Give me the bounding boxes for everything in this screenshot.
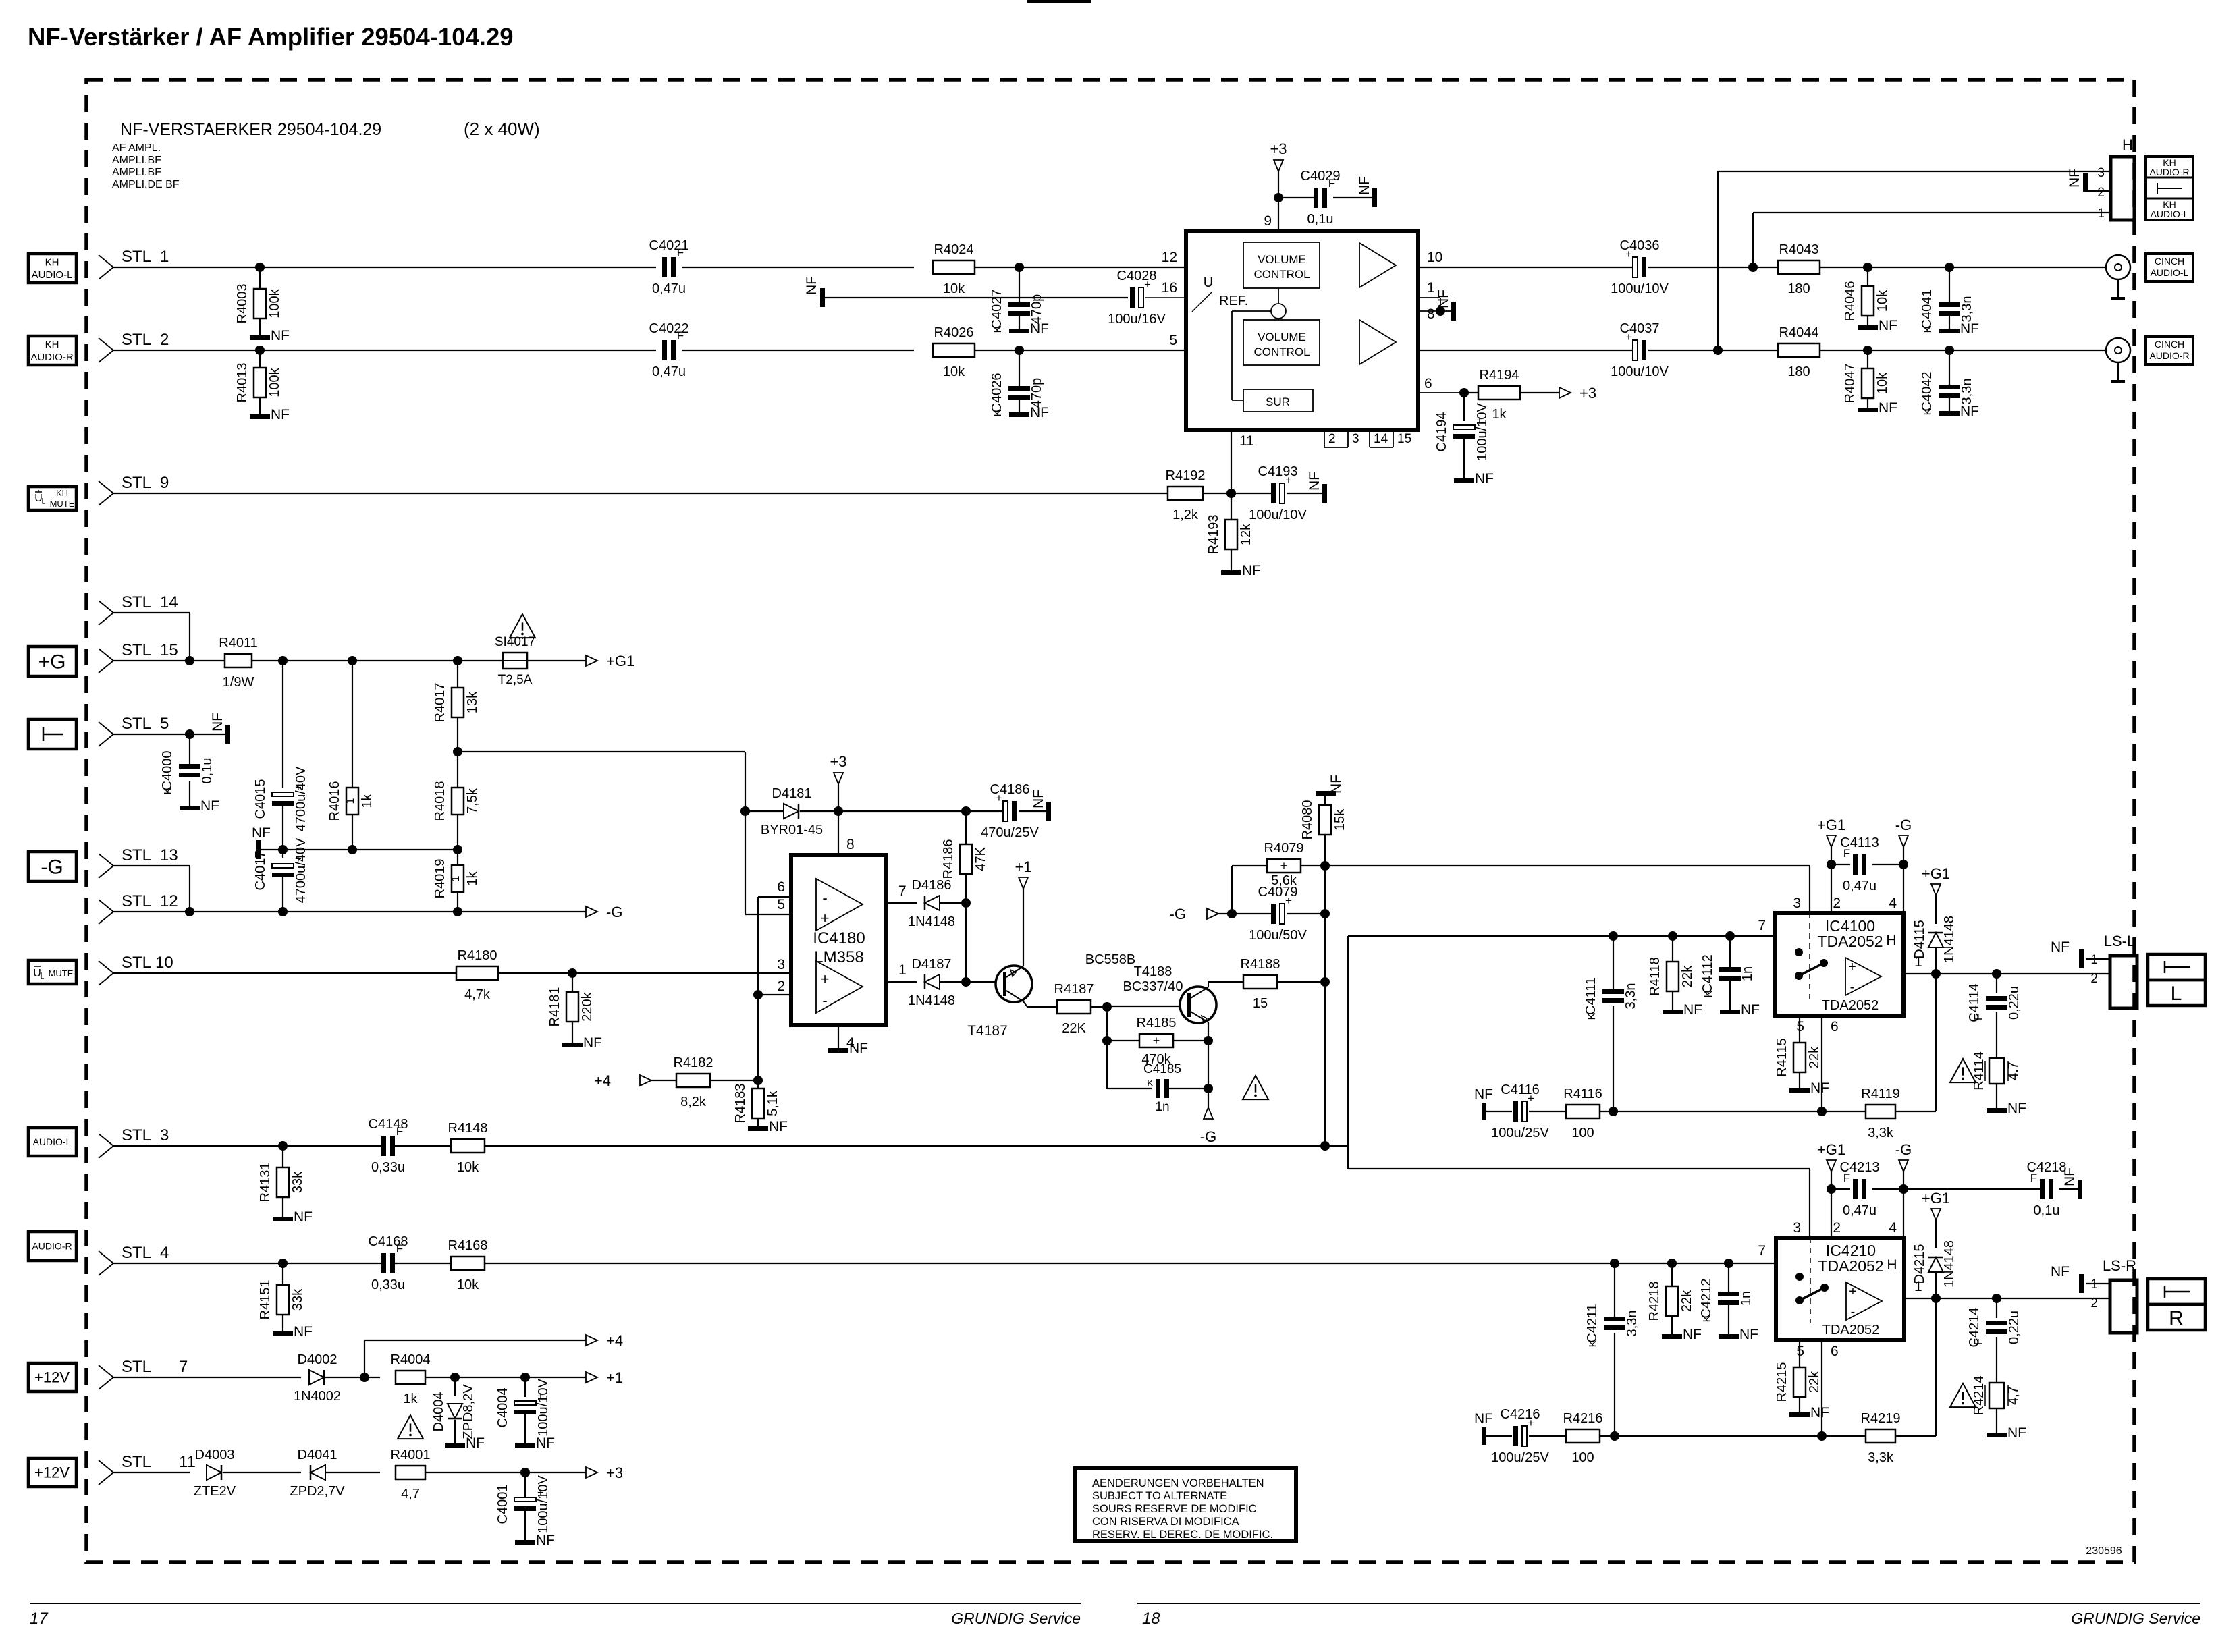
svg-text:22k: 22k: [1807, 1371, 1822, 1393]
svg-text:12: 12: [1162, 250, 1177, 265]
svg-text:R4187: R4187: [1054, 982, 1094, 997]
svg-text:CINCH: CINCH: [2155, 256, 2184, 267]
svg-text:R4181: R4181: [547, 987, 562, 1027]
svg-text:3,3k: 3,3k: [1868, 1126, 1894, 1140]
svg-text:AF AMPL.: AF AMPL.: [112, 142, 161, 154]
svg-text:-G: -G: [40, 856, 63, 879]
svg-text:22k: 22k: [1807, 1046, 1822, 1068]
svg-text:C4004: C4004: [495, 1388, 510, 1428]
svg-text:F: F: [1328, 177, 1335, 190]
svg-text:1n: 1n: [1155, 1100, 1169, 1114]
svg-text:D4041: D4041: [298, 1448, 337, 1462]
svg-text:5,1k: 5,1k: [765, 1090, 780, 1116]
svg-text:1k: 1k: [1492, 407, 1507, 422]
svg-text:K: K: [163, 787, 174, 794]
svg-text:2: 2: [2090, 972, 2098, 986]
svg-text:+1: +1: [1015, 858, 1031, 875]
svg-text:SOURS RESERVE DE MODIFIC: SOURS RESERVE DE MODIFIC: [1092, 1503, 1257, 1515]
svg-text:NF: NF: [1683, 1327, 1702, 1342]
svg-text:100: 100: [1571, 1450, 1594, 1465]
svg-text:0,47u: 0,47u: [652, 364, 686, 379]
svg-text:9: 9: [1264, 213, 1272, 229]
svg-text:-: -: [1850, 980, 1855, 995]
svg-text:NF: NF: [536, 1435, 555, 1451]
svg-text:4,7: 4,7: [2006, 1386, 2021, 1405]
svg-text:13k: 13k: [465, 691, 480, 713]
svg-text:AUDIO-L: AUDIO-L: [2151, 209, 2189, 219]
svg-text:GRUNDIG Service: GRUNDIG Service: [951, 1609, 1081, 1627]
svg-text:0,1u: 0,1u: [1307, 212, 1334, 227]
svg-text:MUTE: MUTE: [50, 499, 75, 509]
svg-text:NF: NF: [1810, 1405, 1829, 1421]
svg-text:R4168: R4168: [448, 1238, 488, 1253]
svg-text:VOLUME: VOLUME: [1258, 331, 1306, 343]
svg-text:C4212: C4212: [1699, 1279, 1714, 1319]
svg-text:1: 1: [2090, 1277, 2098, 1292]
svg-text:4,7k: 4,7k: [464, 987, 491, 1002]
svg-text:AUDIO-R: AUDIO-R: [30, 352, 74, 363]
svg-text:-G: -G: [1200, 1128, 1216, 1145]
svg-text:+: +: [821, 910, 830, 927]
svg-text:STL: STL: [122, 954, 151, 972]
svg-text:33k: 33k: [290, 1288, 305, 1311]
svg-text:D4181: D4181: [772, 786, 812, 801]
svg-text:3,3k: 3,3k: [1868, 1450, 1894, 1465]
svg-text:17: 17: [30, 1609, 49, 1628]
svg-text:180: 180: [1787, 281, 1810, 296]
svg-text:R4186: R4186: [941, 839, 956, 879]
svg-text:NF: NF: [1879, 318, 1897, 333]
svg-text:15: 15: [1397, 432, 1411, 446]
svg-text:K: K: [1588, 1340, 1599, 1347]
svg-text:NF: NF: [1960, 404, 1979, 419]
svg-text:+: +: [1280, 859, 1288, 873]
svg-text:1k: 1k: [403, 1392, 418, 1406]
svg-text:3,3n: 3,3n: [1625, 1311, 1640, 1337]
svg-text:CONTROL: CONTROL: [1253, 346, 1309, 358]
svg-text:1,2k: 1,2k: [1172, 507, 1199, 522]
svg-text:NF: NF: [2007, 1425, 2026, 1441]
svg-text:6: 6: [1831, 1019, 1839, 1035]
svg-text:STL: STL: [122, 331, 151, 349]
svg-text:0,22u: 0,22u: [2007, 986, 2022, 1020]
svg-text:15: 15: [1253, 996, 1268, 1011]
svg-text:NF: NF: [271, 407, 290, 422]
svg-text:10k: 10k: [943, 281, 965, 296]
svg-text:100u/10V: 100u/10V: [1475, 403, 1490, 461]
svg-text:1k: 1k: [360, 793, 375, 808]
svg-text:R4119: R4119: [1861, 1086, 1899, 1101]
svg-text:0,47u: 0,47u: [1843, 1203, 1877, 1218]
svg-text:NF: NF: [804, 276, 819, 295]
svg-text:1N4002: 1N4002: [294, 1389, 341, 1404]
svg-text:D4004: D4004: [431, 1392, 446, 1432]
svg-text:3: 3: [1793, 1220, 1801, 1236]
svg-text:+G1: +G1: [1922, 865, 1950, 882]
svg-text:-: -: [1851, 1304, 1856, 1319]
svg-text:R4001: R4001: [391, 1448, 431, 1462]
svg-text:10k: 10k: [1875, 290, 1890, 312]
svg-text:C4112: C4112: [1700, 954, 1715, 993]
svg-text:T4188: T4188: [1134, 964, 1172, 979]
svg-text:0,33u: 0,33u: [371, 1277, 405, 1292]
svg-text:14: 14: [160, 593, 178, 611]
svg-text:NF: NF: [2051, 1264, 2070, 1279]
svg-text:R4219: R4219: [1861, 1411, 1901, 1426]
svg-text:D4186: D4186: [912, 878, 952, 893]
svg-text:U: U: [33, 968, 41, 979]
svg-text:KH: KH: [45, 256, 59, 268]
svg-text:K: K: [1147, 1078, 1154, 1089]
svg-text:NF: NF: [1357, 176, 1372, 195]
svg-text:5: 5: [1796, 1019, 1804, 1035]
svg-text:NF: NF: [1031, 790, 1046, 808]
svg-text:R4148: R4148: [448, 1121, 488, 1136]
svg-text:100u/25V: 100u/25V: [1491, 1450, 1549, 1465]
svg-text:R4003: R4003: [235, 284, 250, 324]
svg-text:REF.: REF.: [1219, 294, 1248, 308]
svg-text:NF: NF: [466, 1435, 485, 1451]
svg-text:NF: NF: [271, 328, 290, 343]
svg-text:R4044: R4044: [1779, 325, 1819, 340]
svg-text:NF: NF: [1474, 1411, 1493, 1427]
svg-text:3: 3: [1793, 896, 1801, 911]
svg-text:10: 10: [155, 954, 173, 972]
svg-text:NF: NF: [1960, 321, 1979, 337]
svg-text:R4193: R4193: [1206, 515, 1221, 555]
svg-text:C4036: C4036: [1620, 238, 1660, 253]
svg-text:4: 4: [1889, 1220, 1897, 1236]
svg-text:1: 1: [160, 248, 169, 266]
svg-text:STL: STL: [122, 1244, 151, 1262]
svg-text:NF-Verstärker / AF Amplifier 2: NF-Verstärker / AF Amplifier 29504-104.2…: [28, 23, 514, 51]
svg-text:C4037: C4037: [1620, 321, 1660, 336]
svg-text:(2 x 40W): (2 x 40W): [464, 119, 540, 139]
svg-text:NF: NF: [2051, 939, 2070, 955]
svg-text:+12V: +12V: [34, 1369, 70, 1386]
svg-text:D4003: D4003: [195, 1448, 235, 1462]
svg-text:15k: 15k: [1332, 808, 1347, 831]
svg-text:C4028: C4028: [1117, 269, 1157, 283]
svg-text:IC4180: IC4180: [813, 929, 865, 947]
svg-text:K: K: [1586, 1012, 1598, 1020]
svg-text:-: -: [822, 889, 827, 906]
svg-text:NF: NF: [1739, 1327, 1758, 1342]
svg-text:0,22u: 0,22u: [2007, 1311, 2022, 1344]
svg-text:AMPLI.BF: AMPLI.BF: [112, 155, 161, 166]
svg-text:H: H: [1886, 933, 1896, 948]
svg-text:0,1u: 0,1u: [200, 758, 215, 784]
svg-text:STL: STL: [122, 1453, 151, 1471]
svg-text:NF-VERSTAERKER 29504-104.29: NF-VERSTAERKER 29504-104.29: [120, 120, 381, 139]
svg-text:R4218: R4218: [1647, 1282, 1662, 1321]
svg-text:T4187: T4187: [967, 1023, 1008, 1039]
svg-text:11: 11: [1239, 433, 1254, 449]
svg-text:1n: 1n: [1739, 1291, 1754, 1306]
svg-text:F: F: [1973, 1338, 1985, 1345]
svg-text:2: 2: [777, 979, 785, 994]
svg-text:1: 1: [1427, 280, 1435, 296]
svg-text:ZPD2,7V: ZPD2,7V: [290, 1484, 345, 1499]
svg-text:AUDIO-R: AUDIO-R: [32, 1240, 72, 1251]
svg-text:100k: 100k: [267, 288, 282, 318]
svg-text:470p: 470p: [1029, 294, 1044, 325]
svg-text:STL: STL: [122, 715, 151, 733]
svg-text:100: 100: [1571, 1126, 1594, 1140]
svg-text:H: H: [2122, 136, 2133, 153]
svg-text:K: K: [992, 409, 1004, 416]
svg-text:NF: NF: [2067, 169, 2082, 188]
svg-text:BC337/40: BC337/40: [1123, 979, 1183, 994]
svg-text:NF: NF: [1474, 1086, 1493, 1102]
svg-text:LS-L: LS-L: [2104, 933, 2135, 949]
svg-text:D4215: D4215: [1912, 1244, 1927, 1284]
svg-text:TDA2052: TDA2052: [1822, 998, 1879, 1013]
svg-text:8: 8: [1427, 306, 1435, 322]
svg-text:C4193: C4193: [1258, 464, 1298, 479]
svg-text:STL: STL: [122, 846, 151, 864]
svg-text:8,2k: 8,2k: [680, 1095, 707, 1109]
svg-text:180: 180: [1787, 364, 1810, 379]
svg-text:+3: +3: [1270, 140, 1287, 157]
svg-text:18: 18: [1142, 1609, 1160, 1628]
svg-text:5: 5: [1169, 333, 1177, 348]
svg-text:MUTE: MUTE: [49, 968, 74, 979]
svg-text:-G: -G: [1170, 906, 1186, 923]
svg-text:3: 3: [2097, 166, 2105, 180]
svg-text:R4185: R4185: [1137, 1016, 1177, 1030]
svg-text:R4216: R4216: [1563, 1411, 1603, 1426]
svg-text:4700u/40V: 4700u/40V: [294, 837, 308, 903]
svg-text:+G: +G: [38, 651, 66, 673]
svg-text:BC558B: BC558B: [1085, 952, 1136, 967]
svg-text:T2,5A: T2,5A: [498, 673, 533, 687]
svg-text:11: 11: [179, 1453, 196, 1471]
svg-text:+G1: +G1: [1922, 1190, 1950, 1207]
svg-text:6: 6: [777, 879, 785, 895]
svg-text:R4016: R4016: [327, 781, 342, 821]
svg-text:3: 3: [160, 1126, 169, 1145]
svg-text:NF: NF: [1810, 1080, 1829, 1096]
svg-text:0,1u: 0,1u: [2034, 1203, 2060, 1218]
svg-text:4: 4: [160, 1244, 169, 1262]
svg-text:100u/25V: 100u/25V: [1491, 1126, 1549, 1140]
svg-text:K: K: [1922, 408, 1934, 415]
svg-text:NF: NF: [210, 713, 225, 732]
svg-text:R4004: R4004: [391, 1352, 431, 1367]
svg-text:2: 2: [1833, 1220, 1841, 1236]
svg-text:2: 2: [2090, 1296, 2098, 1311]
svg-text:2: 2: [2097, 186, 2105, 200]
svg-text:1N4148: 1N4148: [1942, 1240, 1957, 1288]
svg-text:1: 1: [2097, 206, 2105, 221]
svg-text:+: +: [1153, 1034, 1160, 1047]
svg-text:100u/10V: 100u/10V: [536, 1379, 551, 1437]
svg-text:+3: +3: [606, 1464, 623, 1481]
svg-text:0,33u: 0,33u: [371, 1160, 405, 1175]
svg-text:NF: NF: [849, 1041, 868, 1056]
svg-text:C4017: C4017: [253, 851, 268, 891]
svg-text:220k: 220k: [580, 991, 595, 1021]
svg-text:GRUNDIG Service: GRUNDIG Service: [2071, 1609, 2200, 1627]
svg-text:1N4148: 1N4148: [1942, 916, 1957, 963]
svg-text:F: F: [396, 1125, 403, 1138]
svg-text:2: 2: [1328, 432, 1336, 446]
svg-text:47K: 47K: [973, 847, 988, 871]
svg-text:VOLUME: VOLUME: [1258, 253, 1306, 266]
svg-text:1k: 1k: [465, 871, 480, 885]
svg-text:5: 5: [1796, 1344, 1804, 1359]
svg-text:+3: +3: [830, 753, 846, 770]
svg-text:TDA2052: TDA2052: [1818, 1257, 1883, 1275]
svg-text:+: +: [1848, 960, 1856, 974]
svg-text:R4019: R4019: [433, 859, 448, 899]
svg-text:NF: NF: [200, 798, 219, 814]
svg-text:KH: KH: [56, 488, 68, 498]
svg-text:7,5k: 7,5k: [465, 788, 480, 814]
svg-text:NF: NF: [1436, 290, 1451, 308]
svg-text:33k: 33k: [290, 1171, 305, 1193]
svg-text:NF: NF: [1307, 472, 1322, 491]
svg-text:F: F: [1973, 1014, 1985, 1020]
svg-text:13: 13: [160, 846, 178, 864]
svg-text:4700u/40V: 4700u/40V: [294, 766, 308, 831]
svg-text:NF: NF: [1030, 405, 1049, 420]
svg-text:+4: +4: [594, 1072, 611, 1089]
svg-text:R4024: R4024: [934, 242, 974, 257]
svg-text:100u/10V: 100u/10V: [1249, 507, 1307, 522]
svg-text:SUR: SUR: [1266, 395, 1290, 408]
svg-text:D4115: D4115: [1912, 920, 1927, 958]
svg-text:R4043: R4043: [1779, 242, 1819, 257]
svg-text:C4000: C4000: [160, 751, 175, 791]
svg-text:7: 7: [898, 883, 907, 899]
svg-text:+3: +3: [1579, 385, 1596, 402]
svg-text:3,3n: 3,3n: [1960, 379, 1974, 405]
svg-text:R4151: R4151: [258, 1280, 273, 1320]
svg-text:100u/16V: 100u/16V: [1108, 312, 1166, 327]
svg-text:100u/10V: 100u/10V: [536, 1475, 551, 1533]
svg-text:+12V: +12V: [34, 1464, 70, 1481]
svg-text:NF: NF: [1328, 775, 1344, 794]
svg-text:C4186: C4186: [990, 782, 1030, 797]
svg-text:+1: +1: [606, 1369, 623, 1386]
svg-text:2: 2: [1833, 896, 1841, 911]
svg-text:F: F: [677, 329, 684, 342]
svg-text:1/9W: 1/9W: [223, 675, 254, 690]
svg-text:R4116: R4116: [1563, 1086, 1602, 1101]
svg-text:R4131: R4131: [258, 1163, 273, 1203]
svg-text:1N4148: 1N4148: [908, 993, 955, 1008]
svg-text:230596: 230596: [2086, 1545, 2122, 1557]
svg-text:NF: NF: [1475, 471, 1494, 487]
svg-text:AMPLI.DE BF: AMPLI.DE BF: [112, 179, 180, 190]
svg-text:NF: NF: [2062, 1167, 2078, 1186]
svg-text:R4182: R4182: [674, 1055, 713, 1070]
svg-text:NF: NF: [769, 1119, 788, 1134]
svg-text:AENDERUNGEN VORBEHALTEN: AENDERUNGEN VORBEHALTEN: [1092, 1477, 1264, 1489]
svg-text:TDA2052: TDA2052: [1823, 1323, 1880, 1338]
svg-text:-G: -G: [606, 904, 622, 920]
svg-text:D4002: D4002: [298, 1352, 337, 1367]
svg-text:TDA2052: TDA2052: [1817, 933, 1883, 950]
svg-text:0,47u: 0,47u: [1843, 879, 1877, 893]
svg-text:3,3n: 3,3n: [1960, 296, 1974, 323]
svg-text:AMPLI.BF: AMPLI.BF: [112, 167, 161, 178]
svg-text:1: 1: [450, 875, 462, 881]
svg-text:ZTE2V: ZTE2V: [194, 1484, 236, 1499]
svg-text:14: 14: [1374, 432, 1388, 446]
svg-text:C4216: C4216: [1501, 1407, 1540, 1422]
svg-text:R4188: R4188: [1241, 957, 1280, 972]
svg-text:100u/10V: 100u/10V: [1611, 281, 1669, 296]
svg-text:9: 9: [160, 474, 169, 492]
svg-text:R4017: R4017: [433, 683, 448, 723]
svg-text:F: F: [1843, 1172, 1850, 1184]
svg-text:STL: STL: [122, 1126, 151, 1145]
svg-text:5: 5: [777, 897, 785, 912]
svg-text:R4118: R4118: [1648, 957, 1663, 995]
svg-text:R4026: R4026: [934, 325, 974, 340]
svg-text:C4042: C4042: [1920, 372, 1935, 412]
svg-text:-: -: [822, 992, 827, 1009]
svg-text:R4194: R4194: [1480, 368, 1519, 383]
svg-text:10k: 10k: [943, 364, 965, 379]
svg-text:470p: 470p: [1029, 378, 1044, 408]
svg-text:L: L: [2171, 983, 2182, 1005]
svg-text:F: F: [1843, 847, 1850, 860]
svg-text:R4079: R4079: [1264, 841, 1304, 856]
svg-text:1n: 1n: [1740, 966, 1755, 981]
svg-text:RESERV. EL DEREC. DE MODIFIC.: RESERV. EL DEREC. DE MODIFIC.: [1092, 1529, 1273, 1541]
svg-text:R4018: R4018: [433, 781, 448, 821]
svg-text:R: R: [2169, 1307, 2184, 1329]
svg-text:NF: NF: [1741, 1002, 1760, 1018]
svg-text:+4: +4: [606, 1332, 623, 1349]
svg-text:NF: NF: [1242, 563, 1261, 578]
svg-text:C4211: C4211: [1585, 1304, 1600, 1342]
svg-text:F: F: [2030, 1172, 2037, 1184]
svg-text:3: 3: [1352, 432, 1359, 446]
svg-text:22K: 22K: [1062, 1021, 1086, 1036]
svg-text:F: F: [396, 1242, 403, 1255]
svg-text:KH: KH: [45, 339, 59, 350]
svg-text:AUDIO-L: AUDIO-L: [32, 269, 73, 281]
svg-text:R4180: R4180: [458, 948, 497, 963]
svg-text:R4214: R4214: [1972, 1376, 1987, 1416]
svg-text:C4111: C4111: [1584, 977, 1598, 1015]
svg-text:100u/50V: 100u/50V: [1249, 928, 1307, 943]
svg-text:1N4148: 1N4148: [908, 914, 955, 929]
svg-text:2: 2: [160, 331, 169, 349]
svg-text:10k: 10k: [457, 1277, 479, 1292]
svg-text:C4027: C4027: [990, 290, 1004, 329]
svg-text:R4183: R4183: [733, 1084, 748, 1124]
svg-text:R4011: R4011: [219, 636, 257, 651]
svg-text:22k: 22k: [1680, 965, 1695, 987]
svg-text:H: H: [1887, 1257, 1897, 1273]
svg-text:C4001: C4001: [495, 1485, 510, 1524]
svg-text:+: +: [1849, 1284, 1857, 1299]
svg-text:C4185: C4185: [1143, 1062, 1181, 1076]
svg-text:15: 15: [160, 641, 178, 659]
svg-text:CINCH: CINCH: [2155, 339, 2184, 350]
svg-text:100u/10V: 100u/10V: [1611, 364, 1669, 379]
svg-text:AUDIO-R: AUDIO-R: [2149, 350, 2189, 361]
svg-text:22k: 22k: [1679, 1290, 1694, 1312]
svg-text:K: K: [1702, 1315, 1713, 1322]
svg-text:5: 5: [160, 715, 169, 733]
